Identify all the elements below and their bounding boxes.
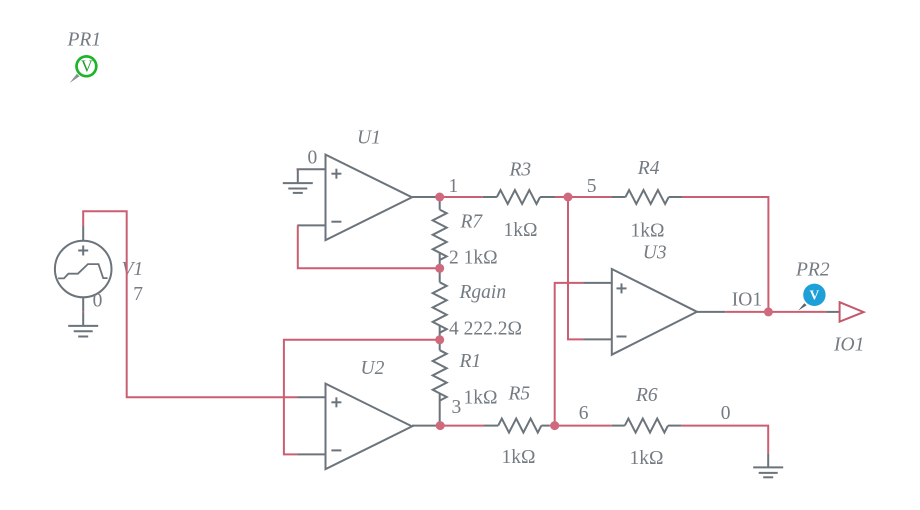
svg-text:4 222.2Ω: 4 222.2Ω (449, 319, 522, 340)
ground (right of R6) (753, 453, 783, 477)
resistor R7 (433, 197, 447, 268)
resistor R4 (611, 190, 682, 204)
wire net 7: V1 top to U2 + input (83, 211, 297, 397)
svg-text:V1: V1 (122, 259, 144, 280)
wire R5 to node 6 (549, 425, 554, 427)
svg-text:R1: R1 (459, 351, 482, 372)
svg-text:1kΩ: 1kΩ (502, 447, 536, 468)
junction node 2 (435, 264, 444, 273)
svg-text:1: 1 (449, 176, 459, 197)
wire node 5 to R4 (568, 196, 611, 198)
ground (U1 +) (283, 169, 313, 193)
junction node 1 (435, 193, 444, 202)
svg-text:U2: U2 (361, 358, 385, 379)
wire node 1 to R3 (440, 196, 483, 198)
svg-text:IO1: IO1 (833, 334, 864, 355)
svg-text:Rgain: Rgain (459, 282, 507, 303)
svg-text:3: 3 (452, 397, 462, 418)
svg-text:1kΩ: 1kΩ (464, 388, 498, 409)
svg-text:IO1: IO1 (732, 290, 762, 311)
svg-text:6: 6 (579, 403, 589, 424)
svg-text:U1: U1 (357, 127, 381, 148)
svg-text:1kΩ: 1kΩ (631, 221, 665, 242)
wire R6 to ground (682, 426, 768, 454)
svg-text:U3: U3 (643, 242, 667, 263)
wire U2 - feedback to node 4 (284, 340, 440, 455)
junction output node (764, 307, 773, 316)
svg-text:0: 0 (308, 147, 318, 168)
wire node 5 down to U3 - input (568, 197, 583, 339)
junction node 6 (550, 421, 559, 430)
probe PR1 (70, 56, 97, 83)
wire R4 to output node (683, 197, 769, 312)
svg-text:PR1: PR1 (67, 30, 102, 51)
svg-text:1kΩ: 1kΩ (630, 448, 664, 469)
resistor R1 (433, 340, 447, 426)
op-amp U3 (583, 269, 725, 355)
junction node 3 (436, 421, 445, 430)
resistor Rgain (433, 268, 447, 340)
wire node 6 to R6 (555, 425, 612, 427)
ground (below V1) (68, 326, 98, 337)
resistor R5 (484, 419, 549, 433)
wire U1 - feedback to node 2 (298, 225, 440, 268)
svg-text:1kΩ: 1kΩ (504, 220, 538, 241)
svg-text:V: V (81, 57, 93, 76)
wire V1 bottom to ground (82, 311, 84, 313)
svg-text:V: V (810, 287, 820, 302)
svg-text:2 1kΩ: 2 1kΩ (449, 248, 498, 269)
resistor R6 (612, 419, 682, 433)
junction node 5 (564, 193, 573, 202)
wire node 6 up to U3 + input (555, 283, 584, 426)
probe PR2 (798, 284, 825, 311)
op-amp U1 (297, 155, 440, 241)
svg-text:5: 5 (587, 176, 597, 197)
svg-text:R6: R6 (635, 385, 658, 406)
svg-text:R5: R5 (508, 384, 531, 405)
svg-text:PR2: PR2 (795, 259, 830, 280)
svg-text:0: 0 (93, 291, 103, 312)
svg-text:R4: R4 (637, 158, 660, 179)
svg-text:R7: R7 (460, 211, 484, 232)
wire U3 out to IO1 (725, 311, 826, 313)
svg-text:R3: R3 (509, 160, 532, 181)
connector IO1 (826, 302, 863, 322)
junction node 4 (435, 335, 444, 344)
op-amp U2 (297, 384, 440, 470)
wire U1 + to ground tick (297, 168, 299, 170)
resistor R3 (483, 190, 556, 204)
svg-text:0: 0 (721, 403, 731, 424)
wire R3 to node 5 (555, 196, 568, 198)
svg-text:7: 7 (133, 284, 143, 305)
source V1 (55, 226, 112, 326)
wire U2 out to R5 (440, 425, 484, 427)
